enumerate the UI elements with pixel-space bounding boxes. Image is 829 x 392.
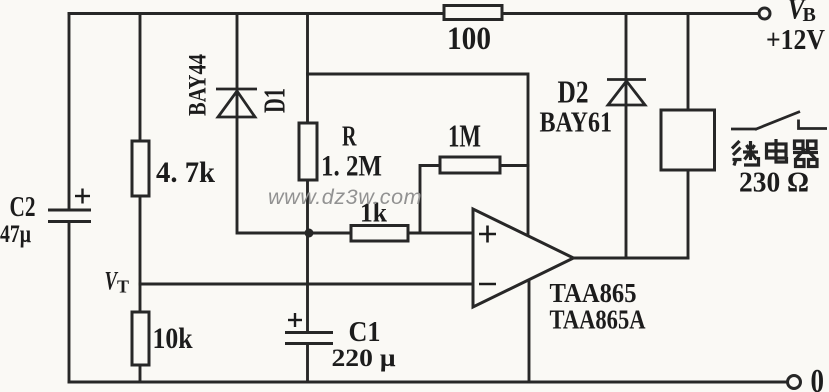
svg-text:47μ: 47μ <box>0 221 31 248</box>
svg-text:10k: 10k <box>153 322 193 355</box>
svg-text:C2: C2 <box>10 191 36 223</box>
svg-text:R: R <box>342 121 357 153</box>
svg-text:100: 100 <box>447 21 491 57</box>
svg-text:1. 2M: 1. 2M <box>321 150 382 183</box>
svg-text:C1: C1 <box>349 316 381 348</box>
svg-text:0: 0 <box>811 363 825 392</box>
svg-text:D2: D2 <box>558 74 589 110</box>
svg-text:T: T <box>117 277 129 297</box>
svg-text:B: B <box>803 4 816 26</box>
svg-text:230 Ω: 230 Ω <box>739 168 809 199</box>
svg-text:1M: 1M <box>448 118 481 154</box>
svg-text:BAY61: BAY61 <box>540 107 613 139</box>
svg-text:4. 7k: 4. 7k <box>156 156 215 189</box>
svg-text:www.dz3w.com: www.dz3w.com <box>268 185 422 209</box>
svg-text:BAY44: BAY44 <box>185 54 212 116</box>
svg-text:220 μ: 220 μ <box>332 345 396 372</box>
svg-text:TAA865A: TAA865A <box>550 304 646 335</box>
svg-text:+12V: +12V <box>766 24 825 56</box>
svg-text:D1: D1 <box>257 88 292 113</box>
